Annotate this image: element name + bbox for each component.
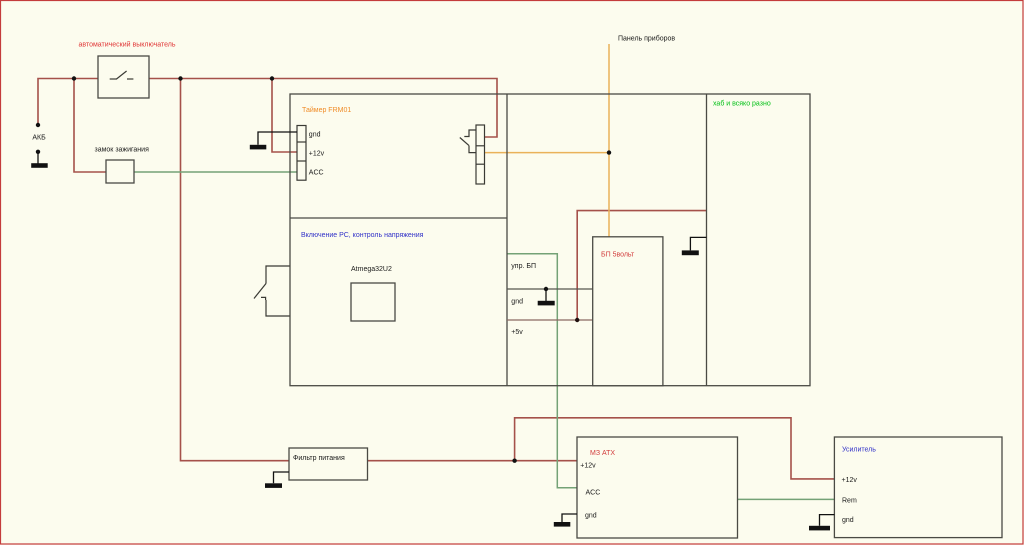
node junction C on main line — [270, 76, 274, 80]
svg-text:упр. БП: упр. БП — [511, 263, 536, 270]
wire: riser to amplifier +12v — [515, 418, 835, 479]
svg-text:ACC: ACC — [309, 170, 324, 177]
ground at amplifier — [809, 515, 834, 531]
ground at filter — [265, 472, 289, 488]
relay contact at J2 — [460, 130, 476, 153]
ground near hub divider — [682, 237, 707, 255]
svg-text:+12v: +12v — [842, 477, 858, 484]
svg-text:+12v: +12v — [309, 151, 325, 158]
svg-text:+5v: +5v — [511, 329, 523, 336]
divider line y=218 — [290, 217, 507, 219]
node junction on bottom 12v line — [512, 459, 516, 463]
breaker switch symbol — [110, 71, 134, 79]
wire: +5v row — [507, 319, 593, 321]
svg-text:Таймер FRM01: Таймер FRM01 — [302, 106, 351, 114]
wire: green Rem ATX to amplifier — [738, 498, 835, 500]
switch S2 at PC-control box — [254, 266, 290, 316]
timer main box — [290, 94, 810, 386]
node +5v junction — [575, 318, 579, 322]
wire: 5v supply red wire — [577, 211, 707, 320]
svg-text:Включение РС, контроль напряже: Включение РС, контроль напряжения — [301, 232, 424, 239]
divider line x=507 — [506, 94, 508, 386]
filter box — [289, 448, 368, 480]
svg-text:gnd: gnd — [309, 132, 321, 139]
svg-text:Фильтр питания: Фильтр питания — [293, 455, 345, 462]
ATX box — [577, 437, 738, 538]
svg-text:Atmega32U2: Atmega32U2 — [351, 266, 392, 273]
svg-text:gnd: gnd — [585, 512, 597, 519]
wire: gnd row — [507, 288, 593, 290]
wire: orange panel priborov drop to BP 5v box — [608, 44, 610, 237]
Atmega box — [351, 283, 395, 321]
svg-text:Rem: Rem — [842, 497, 857, 504]
connector J2 (timer right) — [476, 125, 485, 184]
breaker box — [98, 56, 149, 98]
node battery terminal — [36, 123, 40, 127]
wire: orange branch to timer J2 — [485, 152, 610, 154]
wire: AKB to breaker box — [38, 79, 98, 126]
divider line x=707 — [706, 94, 708, 386]
svg-text:БП 5вольт: БП 5вольт — [601, 252, 635, 259]
connector J1 (timer left) — [297, 126, 306, 181]
ground at ATX — [554, 514, 577, 527]
node orange junction — [607, 150, 611, 154]
wire: drop to ignition lock — [74, 79, 106, 173]
svg-text:замок зажигания: замок зажигания — [95, 146, 150, 153]
wire: green upr.BP to ATX ACC — [507, 254, 577, 488]
node junction B on main line — [178, 76, 182, 80]
svg-text:Усилитель: Усилитель — [842, 446, 876, 453]
svg-text:gnd: gnd — [511, 299, 523, 306]
svg-text:ACC: ACC — [586, 489, 601, 496]
ground middle — [538, 287, 555, 306]
BP 5volt box — [593, 237, 663, 386]
svg-text:+12v: +12v — [580, 462, 596, 469]
svg-text:Панель приборов: Панель приборов — [618, 34, 675, 42]
svg-text:АКБ: АКБ — [32, 135, 46, 142]
amplifier box — [834, 437, 1002, 538]
ground at timer gnd pin — [250, 132, 297, 149]
wire: drop to filter — [181, 79, 290, 461]
wire: green ACC from ignition lock to timer — [134, 172, 834, 499]
wire: main +12v line breaker to timer J2 — [149, 79, 497, 138]
svg-text:МЗ АТХ: МЗ АТХ — [590, 450, 615, 457]
node junction A on main line — [72, 76, 76, 80]
svg-text:gnd: gnd — [842, 517, 854, 524]
wire: bottom +12v line filter to ATX — [367, 460, 577, 462]
wire: drop to +12v pin of timer — [272, 79, 297, 153]
ignition lock box — [106, 160, 134, 183]
svg-text:автоматический выключатель: автоматический выключатель — [79, 41, 176, 49]
ground AKB — [31, 150, 48, 168]
svg-text:хаб и всяко разно: хаб и всяко разно — [713, 100, 771, 108]
